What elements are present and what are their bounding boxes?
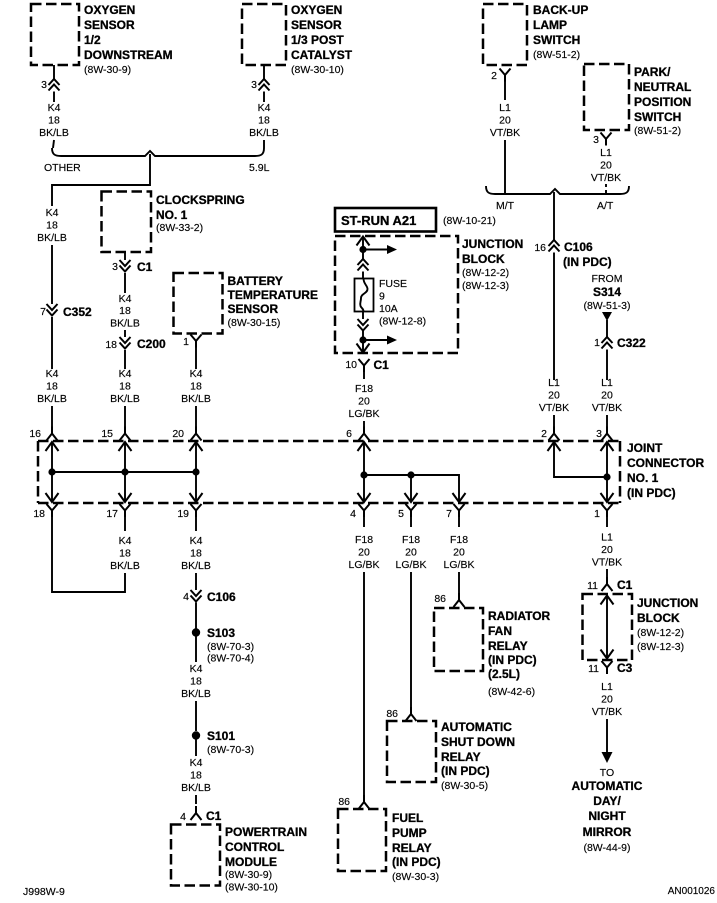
svg-text:DOWNSTREAM: DOWNSTREAM	[84, 48, 173, 62]
svg-text:(2.5L): (2.5L)	[488, 667, 520, 681]
junction node	[360, 471, 367, 478]
wire label L1 20 VT/BK	[591, 147, 621, 184]
svg-text:3: 3	[41, 79, 47, 91]
svg-text:POSITION: POSITION	[634, 95, 691, 109]
svg-text:J998W-9: J998W-9	[23, 886, 65, 898]
wire to C322	[606, 320, 608, 337]
wire L1 20 VT/BK	[606, 350, 608, 381]
powertrain control module box	[171, 825, 220, 886]
svg-text:K4: K4	[190, 663, 203, 675]
wire label L1 20 VT/BK	[592, 532, 622, 569]
svg-text:20: 20	[601, 390, 613, 402]
dashed wire to A/T brace	[605, 184, 607, 193]
svg-text:BK/LB: BK/LB	[39, 127, 69, 139]
wire down to joint connector pin 15	[124, 406, 126, 427]
svg-text:18: 18	[119, 548, 131, 560]
female half connector pin 19	[191, 504, 202, 517]
svg-text:18: 18	[46, 381, 58, 393]
svg-text:(8W-30-9): (8W-30-9)	[225, 869, 272, 881]
svg-text:C1: C1	[137, 260, 153, 274]
female half connector C3 below junction block 2	[602, 661, 613, 674]
connector C322 chevrons	[602, 337, 613, 349]
svg-text:(8W-70-4): (8W-70-4)	[207, 653, 254, 665]
bus internal tie line left	[52, 471, 196, 473]
chevrons above fuse	[358, 259, 369, 271]
oxygen sensor 1/3 label	[291, 3, 353, 76]
automatic shut down relay label	[441, 720, 515, 792]
svg-text:JOINT: JOINT	[627, 441, 663, 455]
bus wire pin 2 jog	[554, 442, 607, 477]
bus exit arrow pin 5	[405, 493, 418, 502]
wire label L1 20 VT/BK	[490, 102, 520, 139]
svg-text:BK/LB: BK/LB	[249, 127, 279, 139]
male half connector C1 at PCM	[191, 806, 202, 820]
bus entry arrow pin 15	[119, 442, 132, 451]
svg-text:VT/BK: VT/BK	[539, 402, 569, 414]
svg-text:CATALYST: CATALYST	[291, 48, 353, 62]
wire down to mirror feed arrow	[606, 719, 608, 754]
wire to splice brace	[53, 140, 54, 148]
svg-text:(8W-30-3): (8W-30-3)	[392, 871, 439, 883]
svg-text:C1: C1	[206, 809, 222, 823]
wire K4 18 BK/LB	[195, 637, 197, 663]
arrow down inside junction block 2	[601, 650, 614, 659]
svg-text:TEMPERATURE: TEMPERATURE	[228, 288, 318, 302]
svg-text:18: 18	[33, 508, 45, 520]
svg-text:9: 9	[379, 291, 385, 303]
svg-text:K4: K4	[190, 535, 203, 547]
svg-text:LG/BK: LG/BK	[396, 559, 427, 571]
arrow up to ST-RUN feed	[357, 237, 370, 246]
svg-text:4: 4	[183, 591, 189, 603]
female half connector below park/neutral switch	[601, 133, 612, 146]
connector C1 chevrons	[120, 260, 131, 272]
svg-text:20: 20	[358, 547, 370, 559]
fuel pump relay label	[392, 811, 441, 883]
bus wire pin 5	[410, 475, 412, 502]
joint connector no. 1 box right edge	[619, 441, 622, 503]
svg-text:AUTOMATIC: AUTOMATIC	[572, 779, 643, 793]
svg-text:BK/LB: BK/LB	[37, 232, 67, 244]
wire K4 18 BK/LB	[263, 92, 265, 103]
svg-text:CONTROL: CONTROL	[225, 840, 284, 854]
connector C352 chevrons	[47, 304, 58, 316]
svg-text:JUNCTION: JUNCTION	[637, 596, 698, 610]
battery temperature sensor box	[174, 273, 223, 334]
svg-text:(8W-12-3): (8W-12-3)	[462, 280, 509, 292]
svg-text:C352: C352	[63, 305, 92, 319]
arrowhead to automatic day/night mirror	[602, 752, 613, 763]
svg-text:BK/LB: BK/LB	[37, 393, 67, 405]
wire down to M/T brace	[504, 140, 506, 193]
junction block label	[462, 237, 523, 292]
radiator fan relay label	[488, 609, 551, 698]
svg-text:F18: F18	[402, 534, 420, 546]
svg-text:TO: TO	[600, 767, 614, 779]
svg-text:17: 17	[106, 508, 118, 520]
svg-text:AUTOMATIC: AUTOMATIC	[441, 720, 512, 734]
joint connector no. 1 box top edge	[38, 440, 620, 443]
female half connector pin 1	[602, 504, 613, 517]
svg-text:NO. 1: NO. 1	[627, 471, 659, 485]
svg-text:20: 20	[358, 396, 370, 408]
male half connector C1 at junction block	[602, 577, 613, 591]
bus exit arrow pin 17	[119, 493, 132, 502]
svg-text:K4: K4	[258, 102, 271, 114]
svg-text:RADIATOR: RADIATOR	[488, 609, 551, 623]
svg-text:NEUTRAL: NEUTRAL	[634, 80, 691, 94]
svg-text:(8W-51-2): (8W-51-2)	[533, 49, 580, 61]
wire label F18 20 LG/BK	[396, 534, 427, 571]
bus exit arrow pin 19	[190, 493, 203, 502]
junction node bottom	[359, 336, 366, 343]
svg-text:VT/BK: VT/BK	[591, 172, 621, 184]
junction block (mirror feed) box	[583, 594, 633, 660]
connector C200 chevrons	[120, 337, 131, 349]
svg-text:(8W-70-3): (8W-70-3)	[207, 744, 254, 756]
bus wire pin 3 to 1	[606, 442, 608, 502]
svg-text:(8W-12-8): (8W-12-8)	[379, 316, 426, 328]
wire label L1 20 VT/BK	[539, 377, 569, 414]
svg-text:C200: C200	[137, 337, 166, 351]
svg-text:18: 18	[190, 770, 202, 782]
wire inside junction block top	[362, 237, 364, 260]
wire L1 20 VT/BK	[504, 82, 506, 101]
svg-text:PARK/: PARK/	[634, 65, 671, 79]
svg-text:1: 1	[594, 337, 600, 349]
bus exit arrow pin 4	[358, 493, 371, 502]
svg-text:(8W-12-2): (8W-12-2)	[462, 267, 509, 279]
svg-text:F18: F18	[355, 383, 373, 395]
female half connector below battery temp sensor	[191, 335, 202, 348]
arrow up inside junction block 2	[601, 596, 614, 605]
svg-text:2: 2	[491, 70, 497, 82]
svg-text:20: 20	[601, 544, 613, 556]
svg-text:(8W-42-6): (8W-42-6)	[488, 686, 535, 698]
svg-text:1: 1	[594, 508, 600, 520]
svg-text:OXYGEN: OXYGEN	[291, 3, 342, 17]
wire label K4 18 BK/LB	[181, 368, 211, 405]
svg-text:M/T: M/T	[496, 200, 515, 212]
junction node	[603, 473, 610, 480]
junction node	[121, 468, 128, 475]
svg-text:BK/LB: BK/LB	[110, 560, 140, 572]
svg-text:CONNECTOR: CONNECTOR	[627, 456, 704, 470]
svg-text:A/T: A/T	[597, 200, 614, 212]
svg-text:15: 15	[101, 428, 113, 440]
svg-text:F18: F18	[355, 534, 373, 546]
wire down to joint connector pin 20	[195, 406, 197, 427]
svg-text:L1: L1	[601, 532, 613, 544]
svg-text:3: 3	[596, 428, 602, 440]
fuse element	[360, 279, 367, 312]
joint connector no. 1 box left edge	[37, 441, 40, 503]
svg-text:1/3 POST: 1/3 POST	[291, 33, 344, 47]
svg-text:SWITCH: SWITCH	[533, 33, 580, 47]
svg-text:3: 3	[251, 79, 257, 91]
svg-text:20: 20	[548, 390, 560, 402]
svg-text:(IN PDC): (IN PDC)	[563, 255, 612, 269]
wire inside junction block 2	[606, 596, 608, 659]
svg-text:(8W-12-3): (8W-12-3)	[637, 641, 684, 653]
svg-text:(8W-30-9): (8W-30-9)	[84, 64, 131, 76]
svg-text:MODULE: MODULE	[225, 855, 277, 869]
svg-text:C1: C1	[374, 358, 390, 372]
svg-text:18: 18	[190, 548, 202, 560]
svg-text:AN001026: AN001026	[668, 886, 716, 897]
svg-text:L1: L1	[600, 147, 612, 159]
clockspring no. 1 box	[102, 192, 152, 253]
svg-text:S101: S101	[207, 729, 235, 743]
svg-text:10: 10	[345, 359, 357, 371]
bus entry arrow pin 3	[601, 442, 614, 451]
male half connector 86 fuel pump relay	[359, 795, 370, 809]
oxygen sensor 1/3 post catalyst box	[242, 4, 286, 65]
wire down to fuel pump relay	[363, 572, 365, 797]
svg-text:(8W-51-3): (8W-51-3)	[583, 300, 630, 312]
bus wire pin 15 to 17	[124, 442, 126, 502]
svg-text:JUNCTION: JUNCTION	[462, 237, 523, 251]
wire K4 18 BK/LB	[195, 740, 197, 757]
svg-text:L1: L1	[601, 377, 613, 389]
svg-text:L1: L1	[499, 102, 511, 114]
svg-text:SHUT DOWN: SHUT DOWN	[441, 735, 515, 749]
svg-text:20: 20	[499, 115, 511, 127]
wire stub pin 1	[606, 517, 608, 527]
svg-text:(8W-30-10): (8W-30-10)	[225, 882, 278, 894]
transmission option merge brace M/T A/T	[486, 186, 629, 194]
svg-text:11: 11	[587, 580, 598, 592]
svg-text:(8W-30-10): (8W-30-10)	[291, 64, 344, 76]
svg-text:18: 18	[258, 115, 270, 127]
bus wire pin 20 to 19	[195, 442, 197, 502]
wire segment to pin 3	[606, 415, 608, 427]
wire segment to pin 2	[553, 415, 555, 427]
wire to splice brace	[263, 140, 265, 148]
svg-text:1/2: 1/2	[84, 33, 101, 47]
svg-text:86: 86	[434, 593, 446, 605]
svg-text:VT/BK: VT/BK	[592, 402, 622, 414]
svg-text:C106: C106	[564, 240, 593, 254]
powertrain control module label	[225, 825, 307, 894]
svg-text:K4: K4	[190, 368, 203, 380]
svg-text:3: 3	[593, 134, 599, 146]
svg-text:L1: L1	[548, 377, 560, 389]
wire pin 18 loop to pin 17	[52, 517, 125, 592]
wire label K4 18 BK/LB	[110, 293, 140, 330]
svg-text:19: 19	[177, 508, 189, 520]
wire stub pin 4	[363, 517, 365, 527]
svg-text:FUEL: FUEL	[392, 811, 423, 825]
park/neutral position switch box	[584, 64, 629, 130]
splice S101 label	[207, 729, 254, 756]
wire label K4 18 BK/LB	[39, 102, 69, 139]
svg-text:18: 18	[105, 339, 117, 351]
female half connector pin 7	[454, 504, 465, 517]
svg-text:BK/LB: BK/LB	[181, 782, 211, 794]
svg-text:18: 18	[46, 220, 58, 232]
male half connector pin 16	[47, 427, 58, 441]
wire label F18 20 LG/BK	[349, 383, 380, 420]
svg-text:20: 20	[453, 547, 465, 559]
wire into fuse	[362, 272, 364, 280]
wire from brace cusp down to C106	[553, 192, 555, 240]
svg-text:18: 18	[190, 381, 202, 393]
wire label K4 18 BK/LB	[110, 368, 140, 405]
junction node	[48, 468, 55, 475]
svg-text:6: 6	[346, 428, 352, 440]
svg-text:18: 18	[190, 676, 202, 688]
wire stub pin 19	[195, 517, 197, 531]
svg-text:NIGHT: NIGHT	[588, 809, 626, 823]
wire label L1 20 VT/BK	[592, 377, 622, 414]
bus internal tie line middle	[364, 475, 459, 502]
to automatic day/night mirror label	[572, 767, 643, 854]
svg-text:OXYGEN: OXYGEN	[84, 3, 135, 17]
svg-text:2: 2	[541, 428, 547, 440]
bus exit arrow pin 1	[601, 493, 614, 502]
wire down to PCM	[195, 795, 197, 804]
svg-text:(IN PDC): (IN PDC)	[627, 486, 676, 500]
fuse label	[379, 278, 426, 328]
wire K4 18 BK/LB	[53, 92, 55, 103]
bus entry arrow pin 2	[548, 442, 561, 451]
svg-text:SENSOR: SENSOR	[84, 18, 135, 32]
svg-text:VT/BK: VT/BK	[592, 706, 622, 718]
fuse 9 10A body	[355, 279, 374, 312]
splice S103	[192, 628, 200, 636]
svg-text:5: 5	[398, 508, 404, 520]
svg-text:FUSE: FUSE	[379, 278, 407, 290]
wire label F18 20 LG/BK	[349, 534, 380, 571]
female half connector pin 5	[406, 504, 417, 517]
svg-text:18: 18	[119, 381, 131, 393]
male half connector pin 15	[120, 427, 131, 441]
splice S101	[192, 731, 200, 739]
svg-text:C322: C322	[617, 336, 646, 350]
svg-text:(8W-51-2): (8W-51-2)	[634, 125, 681, 137]
svg-text:(8W-10-21): (8W-10-21)	[443, 215, 496, 227]
connector in-line chevrons at oxygen 1/3	[259, 79, 270, 91]
svg-text:BLOCK: BLOCK	[637, 611, 680, 625]
svg-text:SENSOR: SENSOR	[228, 302, 279, 316]
svg-text:LG/BK: LG/BK	[349, 559, 380, 571]
wire down to C352	[51, 245, 53, 304]
svg-text:BACK-UP: BACK-UP	[533, 3, 588, 17]
bus exit arrow pin 7	[453, 493, 466, 502]
bus entry arrow pin 6	[358, 442, 371, 451]
wire F18 20 LG/BK	[363, 372, 365, 379]
svg-text:3: 3	[112, 261, 118, 273]
male half connector 86 ASD relay	[406, 707, 417, 721]
wire segment to pin 6	[363, 421, 365, 427]
svg-text:(IN PDC): (IN PDC)	[392, 855, 441, 869]
svg-text:K4: K4	[48, 102, 61, 114]
svg-text:CLOCKSPRING: CLOCKSPRING	[156, 193, 245, 207]
wire down to junction block 2	[606, 569, 608, 577]
engine option merge brace OTHER/5.9L	[52, 148, 264, 156]
svg-text:C3: C3	[617, 661, 633, 675]
svg-text:(8W-44-9): (8W-44-9)	[583, 842, 630, 854]
wire K4 18 BK/LB	[124, 273, 126, 293]
svg-text:FROM: FROM	[592, 273, 623, 285]
wire label L1 20 VT/BK	[592, 681, 622, 718]
svg-text:K4: K4	[119, 535, 132, 547]
svg-text:LAMP: LAMP	[533, 18, 567, 32]
junction node	[192, 468, 199, 475]
branch arrow right (bottom)	[363, 339, 388, 341]
svg-text:RELAY: RELAY	[441, 750, 481, 764]
svg-text:20: 20	[172, 428, 184, 440]
svg-text:(8W-30-15): (8W-30-15)	[228, 317, 281, 329]
male half connector 86 radiator fan relay	[454, 593, 465, 607]
oxygen sensor 1/2 label	[84, 3, 173, 76]
svg-text:K4: K4	[119, 368, 132, 380]
back-up lamp switch box	[483, 4, 527, 65]
radiator fan relay box	[434, 608, 483, 671]
wire down to radiator fan relay	[458, 572, 460, 596]
wire label K4 18 BK/LB	[110, 535, 140, 572]
svg-text:10A: 10A	[379, 303, 398, 315]
wire stub pin 7	[458, 517, 460, 527]
wire label K4 18 BK/LB	[37, 207, 67, 244]
svg-text:20: 20	[601, 694, 613, 706]
branch arrow right (top)	[363, 249, 388, 251]
wire label K4 18 BK/LB	[249, 102, 279, 139]
svg-text:(8W-70-3): (8W-70-3)	[207, 641, 254, 653]
svg-text:86: 86	[338, 796, 350, 808]
male half connector pin 20	[191, 427, 202, 441]
clockspring label	[156, 193, 245, 234]
svg-text:S314: S314	[593, 285, 621, 299]
svg-text:4: 4	[350, 508, 356, 520]
wire to splice S103	[195, 603, 197, 630]
svg-text:C106: C106	[207, 590, 236, 604]
svg-text:DAY/: DAY/	[593, 794, 621, 808]
connector C106 chevrons	[549, 240, 560, 252]
connector C106 name	[563, 240, 612, 269]
wire down to joint connector pin 16	[51, 406, 53, 427]
svg-text:16: 16	[29, 428, 41, 440]
svg-text:4: 4	[180, 811, 186, 823]
male half connector pin 3	[602, 427, 613, 441]
svg-text:16: 16	[534, 242, 546, 254]
chevrons below fuse	[358, 319, 369, 331]
svg-text:S103: S103	[207, 626, 235, 640]
svg-text:(8W-12-2): (8W-12-2)	[637, 627, 684, 639]
svg-text:LG/BK: LG/BK	[444, 559, 475, 571]
female half connector pin 17	[120, 504, 131, 517]
splice S103 label	[207, 626, 254, 665]
female half connector C1 below junction block	[359, 359, 370, 372]
wire from brace cusp down-left	[52, 154, 150, 206]
wire label K4 18 BK/LB	[181, 663, 211, 700]
svg-text:NO. 1: NO. 1	[156, 208, 188, 222]
back-up lamp switch label	[533, 3, 588, 61]
feed arrowhead from S314	[602, 312, 612, 321]
wire down to joint connector pin 2	[553, 253, 555, 381]
svg-text:86: 86	[386, 708, 398, 720]
svg-text:RELAY: RELAY	[488, 639, 528, 653]
arrow down at junction block bottom edge	[357, 344, 370, 353]
bus entry arrow pin 16	[46, 442, 59, 451]
bus wire pin 6 to 4	[363, 442, 365, 502]
wire from oxygen sensor 1/3	[263, 65, 265, 79]
fuel pump relay box	[338, 809, 386, 871]
svg-text:1: 1	[183, 336, 189, 348]
bus wire pin 16 to 18	[51, 442, 53, 502]
female half connector pin 4	[359, 504, 370, 517]
